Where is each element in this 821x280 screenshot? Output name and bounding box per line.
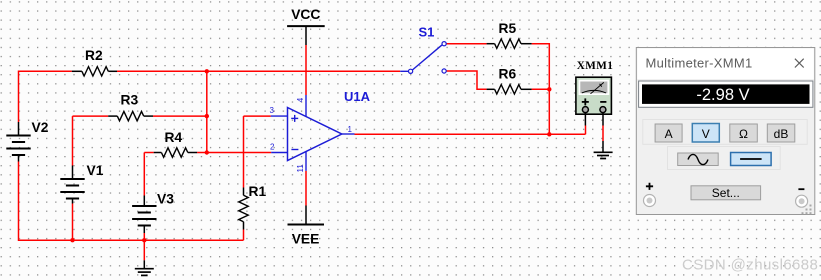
svg-text:Set...: Set...	[712, 186, 740, 200]
op-amp pin 4 stub	[296, 95, 306, 117]
op-amp U1A	[288, 89, 371, 161]
resistor R1	[239, 184, 267, 230]
svg-text:R5: R5	[499, 21, 517, 36]
switch S1	[400, 25, 446, 74]
svg-text:U1A: U1A	[344, 89, 371, 104]
junction R6 output	[547, 87, 551, 91]
ground below XMM1	[594, 141, 613, 159]
svg-text:-2.98 V: -2.98 V	[696, 86, 749, 104]
watermark	[682, 257, 818, 274]
svg-text:VEE: VEE	[292, 232, 320, 247]
multimeter panel XMM1 window	[636, 48, 815, 215]
svg-text:4: 4	[296, 97, 305, 102]
svg-text:R4: R4	[165, 130, 183, 145]
power VEE	[288, 206, 325, 247]
ground below V3	[135, 260, 154, 275]
multimeter XMM1 icon	[576, 60, 613, 126]
svg-text:XMM1: XMM1	[577, 60, 613, 72]
junction R4 node	[205, 150, 209, 154]
junction R2/S1 node	[205, 69, 209, 73]
resistor R5	[487, 21, 532, 48]
wire V1 branch	[72, 116, 74, 240]
svg-text:2: 2	[270, 143, 275, 152]
wire VCC to pin 4	[305, 45, 307, 95]
wire ground rail bottom	[73, 239, 244, 241]
svg-text:V2: V2	[32, 120, 49, 135]
battery V1	[60, 163, 103, 204]
resistor R6	[487, 67, 532, 95]
svg-text:R3: R3	[121, 93, 139, 108]
svg-text:1: 1	[348, 125, 353, 134]
svg-text:R1: R1	[249, 184, 267, 199]
wire V3 branch	[143, 153, 145, 261]
svg-text:3: 3	[270, 106, 275, 115]
wire S1 bottom contact to R6	[446, 71, 486, 89]
wire rail feedback top (node from R2/S1)	[19, 71, 401, 122]
wire R4 input	[144, 152, 207, 154]
wire S1 top contact to R5	[446, 43, 486, 45]
wire XMM1 negative to ground	[602, 126, 604, 142]
svg-text:V1: V1	[87, 163, 104, 178]
op-amp pin 2 stub	[270, 143, 287, 153]
resistor R3	[108, 93, 153, 121]
battery V2	[6, 120, 48, 162]
svg-text:V3: V3	[157, 192, 174, 207]
svg-text:dB: dB	[774, 127, 789, 141]
power VCC	[287, 7, 325, 45]
wire R6 to output node	[532, 88, 550, 90]
wire summing node vertical	[206, 71, 208, 152]
junction R3 node	[205, 114, 209, 118]
svg-text:R2: R2	[85, 48, 103, 63]
svg-text:11: 11	[296, 164, 305, 173]
svg-text:S1: S1	[419, 25, 435, 40]
wire pin 11 to VEE	[305, 171, 307, 206]
wire op-amp output to meter	[355, 126, 586, 135]
wire to op-amp pin 3 with R1 tap	[244, 116, 271, 240]
wire R5 to output node	[532, 44, 550, 135]
resistor R4	[154, 130, 197, 157]
junction output node	[547, 132, 551, 136]
wire V2 bottom to ground rail	[19, 162, 73, 241]
svg-text:Ω: Ω	[739, 127, 748, 141]
svg-text:Multimeter-XMM1: Multimeter-XMM1	[646, 56, 753, 71]
battery V3	[132, 192, 174, 234]
op-amp pin 3 stub	[270, 106, 288, 116]
svg-text:CSDN @zhusl6688: CSDN @zhusl6688	[682, 257, 818, 274]
svg-text:V: V	[702, 127, 710, 141]
svg-text:VCC: VCC	[291, 7, 320, 22]
svg-text:R6: R6	[499, 67, 517, 82]
resistor R2	[72, 48, 117, 76]
svg-text:A: A	[665, 127, 673, 141]
op-amp pin 1 output stub	[342, 125, 355, 134]
wire to op-amp pin 2	[207, 152, 271, 154]
junction V3 ground rail	[142, 238, 146, 242]
op-amp pin 11 stub	[296, 151, 306, 172]
wire R3 input	[73, 115, 207, 117]
junction V1 ground rail	[70, 238, 74, 242]
